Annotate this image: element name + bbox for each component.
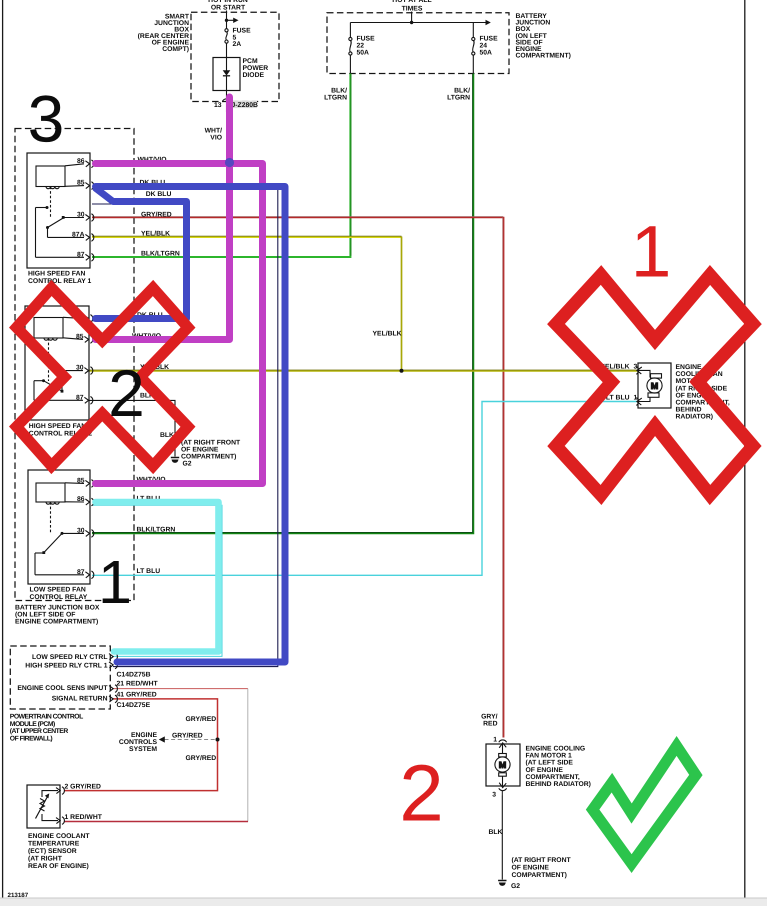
svg-text:(ECT) SENSOR: (ECT) SENSOR (28, 848, 77, 855)
svg-text:85: 85 (77, 477, 85, 484)
svg-text:FAN MOTOR 1: FAN MOTOR 1 (526, 753, 573, 760)
svg-text:REAR OF ENGINE): REAR OF ENGINE) (28, 863, 89, 870)
svg-text:POWERTRAIN CONTROL: POWERTRAIN CONTROL (10, 713, 83, 720)
wire to fuse 22 (349, 23, 351, 38)
svg-text:ENGINE: ENGINE (676, 364, 703, 371)
svg-text:OF ENGINE: OF ENGINE (526, 767, 564, 774)
svg-text:87: 87 (77, 569, 85, 576)
svg-text:(AT RIGHT: (AT RIGHT (28, 856, 63, 863)
svg-text:1: 1 (493, 737, 497, 744)
svg-text:30: 30 (76, 365, 84, 372)
svg-text:G2: G2 (511, 883, 520, 890)
svg-text:(ON LEFT SIDE OF: (ON LEFT SIDE OF (15, 612, 75, 619)
smart junction box (dashed) (191, 12, 279, 101)
fuse 22 symbol (349, 37, 352, 40)
relay K1 armature dashed (50, 187, 52, 219)
svg-text:LTGRN: LTGRN (447, 95, 470, 102)
wire BLK relay2 pin87 to ground G2 (89, 400, 175, 456)
svg-text:HOT IN RUN: HOT IN RUN (208, 0, 248, 4)
svg-text:3: 3 (634, 364, 638, 371)
wire DK BLU thin relay1 pin85 to PCM (under highlight) (92, 189, 278, 667)
svg-text:(AT RIGHT FRONT: (AT RIGHT FRONT (512, 857, 572, 864)
svg-text:HIGH SPEED RLY CTRL 1: HIGH SPEED RLY CTRL 1 (25, 662, 107, 669)
wire fuse to diode box (226, 43, 228, 57)
svg-text:1: 1 (634, 395, 638, 402)
svg-text:RED: RED (483, 721, 497, 728)
svg-text:LT BLU: LT BLU (137, 568, 161, 575)
motor M1 socket bottom pin3 (499, 783, 506, 788)
node BJB branch (410, 21, 413, 24)
motor M1 internals (502, 744, 504, 754)
relay K2 switch (62, 370, 83, 372)
fuse 24 symbol (472, 37, 475, 40)
PCM power diode box (213, 58, 240, 91)
svg-text:COMPT): COMPT) (162, 46, 189, 53)
wire DK BLU highlight relay1 pin85 to relay2 pin86 (96, 189, 187, 319)
relay K3 switch (62, 532, 84, 534)
page left border (2, 0, 4, 898)
svg-text:2: 2 (108, 356, 145, 430)
svg-text:COMPARTMENT): COMPARTMENT) (181, 454, 236, 461)
ECT pin sockets (56, 788, 60, 794)
svg-text:WHT/: WHT/ (205, 128, 222, 135)
svg-text:BLK/: BLK/ (454, 88, 470, 95)
wire BLK/LTGRN fuse22 to relay1 pin87 (green vertical) (92, 74, 350, 258)
wire BLK/LTGRN fuse24 to relay3 pin30 (dark green) (92, 74, 473, 534)
relay K1 high speed fan control relay 1 box (27, 153, 90, 268)
ground G2 (relay2) (171, 458, 179, 463)
svg-text:21 RED/WHT: 21 RED/WHT (117, 681, 159, 688)
svg-text:DIODE: DIODE (243, 72, 265, 79)
ground G2 (motor1) (498, 881, 506, 886)
svg-text:OF ENGINE: OF ENGINE (512, 865, 550, 872)
svg-text:SYSTEM: SYSTEM (129, 746, 157, 753)
svg-text:BLK/: BLK/ (331, 88, 347, 95)
svg-text:C14DZ75E: C14DZ75E (117, 702, 151, 709)
svg-text:BEHIND: BEHIND (676, 407, 702, 414)
wire GRY/RED relay1 pin30 to fan motor1 pin1 (92, 218, 504, 738)
wire fuse24 to box edge (472, 55, 474, 73)
node GRY/RED junction engine controls (216, 738, 220, 742)
PCM pin sockets (109, 654, 113, 660)
svg-text:HOT AT ALL: HOT AT ALL (392, 0, 431, 4)
svg-text:3: 3 (492, 792, 496, 799)
svg-text:3: 3 (28, 82, 65, 156)
svg-text:2 GRY/RED: 2 GRY/RED (65, 783, 101, 790)
svg-text:BATTERY JUNCTION BOX: BATTERY JUNCTION BOX (15, 605, 100, 612)
fuse 5 symbol (225, 29, 228, 32)
connector label J-Z280B (230, 101, 258, 108)
svg-text:J-Z280B: J-Z280B (232, 102, 259, 109)
svg-text:2A: 2A (233, 41, 242, 48)
wire SJB feed vertical (226, 11, 228, 30)
wire WHT/VIO thin under highlight (diode drop) (226, 101, 228, 112)
svg-text:GRY/RED: GRY/RED (186, 716, 217, 723)
wire diode to connector (226, 76, 228, 101)
svg-text:COMPARTMENT): COMPARTMENT) (516, 53, 571, 60)
svg-text:87: 87 (77, 251, 85, 258)
svg-text:MODULE (PCM): MODULE (PCM) (10, 721, 55, 728)
svg-text:2: 2 (399, 749, 444, 838)
svg-text:86: 86 (77, 496, 85, 503)
svg-text:41 GRY/RED: 41 GRY/RED (117, 692, 157, 699)
svg-text:(AT RIGHT FRONT: (AT RIGHT FRONT (181, 440, 241, 447)
node SJB branch (225, 19, 228, 22)
svg-text:1 RED/WHT: 1 RED/WHT (65, 814, 103, 821)
wire to fuse 24 (472, 23, 474, 38)
svg-text:1: 1 (631, 212, 672, 293)
svg-text:DK BLU: DK BLU (146, 191, 172, 198)
diode symbol (223, 70, 231, 75)
svg-text:PCM: PCM (243, 58, 258, 65)
svg-text:RADIATOR): RADIATOR) (676, 414, 714, 421)
wire LT BLU relay3 pin87 to fan motor2 pin1 (92, 402, 638, 576)
svg-text:213187: 213187 (8, 892, 29, 899)
relay K2 high speed fan control relay 2 box (25, 306, 89, 420)
wire YEL/BLK relay1 pin87A down to yellow bus (92, 236, 402, 238)
powertrain control module PCM (dashed) (10, 646, 110, 709)
red X mark over fan motor 2 (556, 275, 753, 495)
page right border (744, 0, 746, 898)
node WHT/VIO junction dot (225, 158, 234, 167)
svg-text:CONTROL RELAY 1: CONTROL RELAY 1 (28, 278, 92, 285)
node YEL/BLK junction (400, 369, 404, 373)
svg-text:GRY/RED: GRY/RED (186, 755, 217, 762)
svg-text:LTGRN: LTGRN (324, 95, 347, 102)
wire into diode (226, 58, 228, 71)
motor M2 socket pin1 (636, 398, 638, 406)
wire DK BLU highlight relay1 pin85 to PCM high speed rly ctrl 1 (96, 187, 286, 663)
svg-text:FUSE: FUSE (480, 36, 499, 43)
svg-text:COMPARTMENT): COMPARTMENT) (512, 872, 567, 879)
svg-text:FUSE: FUSE (233, 28, 252, 35)
svg-text:OR START: OR START (211, 5, 246, 12)
svg-text:G2: G2 (183, 461, 192, 468)
motor M2 circle (647, 378, 662, 393)
bottom window bar (0, 898, 767, 906)
svg-text:BEHIND RADIATOR): BEHIND RADIATOR) (526, 781, 591, 788)
relay K3 armature dashed (50, 502, 52, 534)
svg-text:ENGINE COMPARTMENT): ENGINE COMPARTMENT) (15, 619, 98, 626)
green check mark near fan motor 1 (593, 746, 696, 864)
svg-text:30: 30 (77, 527, 85, 534)
relay K1 pin chevrons and sockets (85, 160, 93, 261)
svg-text:C14DZ75B: C14DZ75B (117, 672, 151, 679)
svg-text:13: 13 (214, 102, 222, 109)
relay K2 coil (34, 318, 63, 339)
svg-text:YEL/BLK: YEL/BLK (141, 231, 170, 238)
svg-text:TEMPERATURE: TEMPERATURE (28, 841, 80, 848)
relay K1 coil (36, 166, 65, 187)
fan motor M2 box (638, 363, 671, 408)
svg-text:COMPARTMENT,: COMPARTMENT, (526, 774, 580, 781)
svg-text:50A: 50A (480, 50, 493, 57)
wire fuse22 to box edge (349, 55, 351, 73)
svg-text:BLK/LTGRN: BLK/LTGRN (137, 527, 176, 534)
relay K2 armature dashed (48, 338, 50, 381)
svg-text:LT BLU: LT BLU (606, 395, 630, 402)
svg-text:YEL/BLK: YEL/BLK (373, 330, 402, 337)
svg-text:ENGINE: ENGINE (131, 732, 158, 739)
relays battery junction box (dashed) (15, 129, 134, 601)
svg-text:ENGINE COOLANT: ENGINE COOLANT (28, 833, 90, 840)
svg-text:1: 1 (98, 548, 132, 616)
ECT internal thermistor (42, 791, 58, 797)
relay K2 pin chevrons and sockets (84, 315, 92, 405)
wire BJB feed vertical (411, 12, 413, 23)
svg-text:LOW SPEED FAN: LOW SPEED FAN (30, 587, 86, 594)
wire DK BLU thin relay1/relay2 link (under highlight) (92, 204, 189, 321)
svg-text:FUSE: FUSE (357, 36, 376, 43)
svg-text:TIMES: TIMES (402, 6, 423, 13)
relay K1 switch (36, 207, 48, 209)
ECT sensor box (27, 785, 60, 828)
wire LT BLU highlight relay3 pin86 to PCM low speed rly ctrl (96, 502, 219, 652)
wire RED/WHT PCM pin21 to ECT pin1 (113, 688, 248, 690)
svg-text:HIGH SPEED FAN: HIGH SPEED FAN (29, 423, 86, 430)
svg-text:OF ENGINE: OF ENGINE (181, 447, 219, 454)
svg-text:24: 24 (480, 43, 488, 50)
svg-text:CONTROL RELAY: CONTROL RELAY (30, 594, 88, 601)
svg-text:30: 30 (77, 212, 85, 219)
svg-text:ENGINE COOL SENS INPUT: ENGINE COOL SENS INPUT (17, 685, 108, 692)
motor M2 internals (638, 370, 650, 377)
wire WHT/VIO highlight SJB to relay junction and relay3 pin85 (96, 97, 230, 340)
svg-text:SIGNAL RETURN: SIGNAL RETURN (52, 696, 108, 703)
svg-text:GRY/RED: GRY/RED (141, 211, 172, 218)
wire branch to right with arrow (227, 19, 234, 21)
wire LT BLU thin relay3 pin86 to PCM (under highlight) (92, 505, 222, 656)
svg-text:M: M (499, 760, 507, 770)
svg-text:POWER: POWER (243, 65, 269, 72)
svg-text:BOX: BOX (516, 26, 531, 33)
svg-text:86: 86 (77, 158, 85, 165)
connector bracket J-Z280B (223, 99, 231, 101)
svg-text:BLK: BLK (489, 829, 503, 836)
svg-text:50A: 50A (357, 50, 370, 57)
svg-text:LOW SPEED RLY CTRL: LOW SPEED RLY CTRL (32, 654, 108, 661)
wire BJB bus horizontal (350, 22, 486, 24)
svg-text:GRY/: GRY/ (481, 714, 497, 721)
relay K3 low speed fan control relay box (28, 470, 90, 584)
motor M1 socket top pin1 (499, 740, 507, 742)
svg-text:(AT UPPER CENTER: (AT UPPER CENTER (10, 728, 69, 735)
fan motor M1 box (486, 744, 520, 786)
svg-text:CONTROLS: CONTROLS (119, 739, 158, 746)
motor M2 socket pin3 (636, 367, 638, 375)
svg-text:(AT LEFT SIDE: (AT LEFT SIDE (526, 760, 574, 767)
relay K3 pin chevrons and sockets (85, 480, 93, 579)
svg-text:GRY/RED: GRY/RED (172, 733, 203, 740)
svg-text:BLK/LTGRN: BLK/LTGRN (141, 251, 180, 258)
wire YEL/BLK relay2 pin30 to fan motor2 pin3 (89, 370, 638, 372)
svg-text:85: 85 (76, 334, 84, 341)
svg-text:87A: 87A (72, 231, 85, 238)
motor M1 circle (495, 757, 510, 772)
svg-text:OF FIREWALL): OF FIREWALL) (10, 735, 53, 742)
wire GRY/RED PCM pin41 to ECT pin2 (64, 699, 218, 791)
svg-text:VIO: VIO (210, 135, 222, 142)
wire BLK fan motor1 pin3 to ground G2 (501, 796, 503, 880)
svg-text:87: 87 (76, 394, 84, 401)
red X mark over relay2 (17, 288, 189, 466)
svg-text:HIGH SPEED FAN: HIGH SPEED FAN (28, 271, 85, 278)
svg-text:ENGINE COOLING: ENGINE COOLING (526, 746, 586, 753)
relay K3 coil (36, 483, 65, 502)
battery junction box (dashed) (327, 13, 509, 74)
wire GRY/RED dashed to engine controls system (165, 739, 216, 741)
svg-text:85: 85 (77, 180, 85, 187)
svg-text:M: M (651, 381, 659, 391)
svg-text:22: 22 (357, 43, 365, 50)
